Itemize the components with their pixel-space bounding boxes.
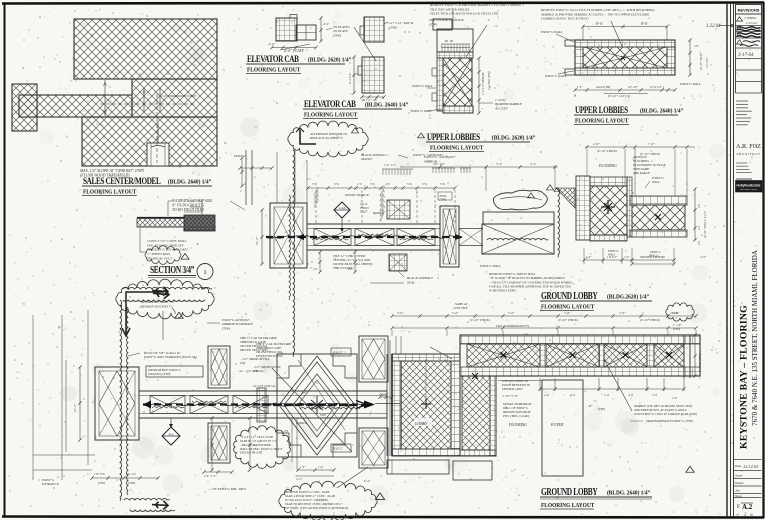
label: SECTION 3/4" with detail circle 1 <box>150 264 194 275</box>
svg-text:Scale: Scale <box>735 474 743 478</box>
svg-text:FLOORING LAYOUT: FLOORING LAYOUT <box>541 304 594 311</box>
svg-text:FLOORING LAYOUT: FLOORING LAYOUT <box>541 503 594 510</box>
elevator cab 2640 leader line <box>354 27 376 61</box>
upper lobbies 2620 - top leaders <box>452 8 454 29</box>
ground lobby 2640 left - vertical cloud line <box>120 300 122 501</box>
svg-text:EXIST’G WALL: EXIST’G WALL <box>479 264 501 268</box>
ground lobby 2640 left - heavy centerline with arrow <box>143 403 358 405</box>
svg-text:development group: development group <box>740 188 758 191</box>
upper lobbies 2640 - leader into plan <box>611 21 622 46</box>
rosette boxed labels <box>331 348 351 356</box>
upper lobbies 2620 - central diamond field <box>443 58 472 106</box>
ground lobby 2640 - LOBBY lattice field <box>401 361 451 449</box>
svg-text:FLOORING LAYOUT: FLOORING LAYOUT <box>304 112 357 119</box>
svg-text:2’0: 2’0 <box>694 44 699 48</box>
ground lobby 2620 - right square bottom tile row <box>630 230 687 237</box>
svg-text:2’-0 1/4” MOSAIC: 2’-0 1/4” MOSAIC <box>481 71 485 95</box>
svg-text:TO-DO FIELD TILES: TO-DO FIELD TILES <box>172 208 204 212</box>
rosette inner diamond double outline <box>293 374 341 437</box>
svg-text:6’6. 4’0: 6’6. 4’0 <box>126 472 136 476</box>
svg-text:W/ED EXIST’G CONT. IF GARA: W/ED EXIST’G CONT. IF GARAGE SLAB (2040) <box>634 412 697 416</box>
svg-text:SELECT: SELECT <box>333 447 344 451</box>
svg-text:5’0.: 5’0. <box>440 182 445 186</box>
elevator cab 2620 - floor grid <box>276 18 297 41</box>
svg-text:(TYP): (TYP) <box>98 481 105 485</box>
svg-text:1/4" EXPANSION JOINT: 1/4" EXPANSION JOINT <box>161 94 197 98</box>
svg-text:SECTION 3/4”: SECTION 3/4” <box>150 264 194 275</box>
ground lobby 2620 - central diamond lattice square <box>590 186 627 235</box>
ground lobby 2620 - boxed pool note <box>438 192 452 200</box>
svg-text:(9’-10” TILE): (9’-10” TILE) <box>699 54 703 70</box>
ground lobby 2640 - LOBBY center cross and centerline <box>421 399 431 409</box>
sales center plan - right column hatched <box>132 79 217 117</box>
svg-text:7’-0”: 7’-0” <box>648 142 655 146</box>
ground lobby 2640 - band tile columns <box>540 344 546 367</box>
svg-text:(BLDG. 2640) 1/4”: (BLDG. 2640) 1/4” <box>640 107 683 115</box>
svg-text:1’4”: 1’4” <box>586 255 592 259</box>
upper lobbies 2620 - left tile column <box>437 58 443 111</box>
svg-text:(TY): (TY) <box>253 369 259 373</box>
label: GROUND LOBBY (BLDG.2620) 1/4" <box>541 290 598 301</box>
svg-text:8’-0: 8’-0 <box>596 22 602 26</box>
ground lobby 2620 - rotated scribble columns <box>313 186 320 196</box>
ground lobby 2620 - X panel under sofa <box>482 224 554 254</box>
ground lobby 2620 - right square top tile row <box>630 196 687 205</box>
svg-text:EXIST’G WALL: EXIST’G WALL <box>544 74 567 78</box>
svg-text:4’-6 SL: 4’-6 SL <box>670 311 679 315</box>
upper lobbies 2640 - border tile course <box>575 40 675 47</box>
sales center plan - niche detail <box>147 143 169 166</box>
title block bottom table <box>734 459 762 461</box>
ground lobby 2620 - corridor X panels <box>314 229 351 246</box>
svg-text:ARE LARGE: ARE LARGE <box>632 171 650 175</box>
section detail - left leader and notes <box>140 228 146 252</box>
svg-text:GROUND LOBBY: GROUND LOBBY <box>541 290 598 301</box>
ground lobby 2640 - stair rects below lobby <box>387 460 449 474</box>
svg-text:5’0.: 5’0. <box>407 182 412 186</box>
upper lobbies 2640 - right dimension lines <box>689 40 691 75</box>
consultant stamp lines <box>736 178 752 180</box>
svg-text:2’0: 2’0 <box>284 429 288 433</box>
ground lobby 2640 - bottom big cloud note <box>279 481 377 521</box>
svg-text:FLOORING LAYOUT: FLOORING LAYOUT <box>247 67 300 74</box>
elevator cab 2620 dimension ticks <box>272 47 316 49</box>
rosette heavy centerline <box>262 404 366 406</box>
svg-text:5’0.: 5’0. <box>334 182 339 186</box>
svg-text:TYP TILE: TYP TILE <box>455 306 468 310</box>
section detail - cloud around note <box>145 246 181 265</box>
upper lobbies 2640 - left edge tabs <box>565 40 575 46</box>
sales center plan - corridor arm hatched <box>19 95 132 117</box>
svg-text:8’-2 3/4”: 8’-2 3/4” <box>348 72 352 84</box>
svg-text:A.2: A.2 <box>742 503 753 511</box>
revision row 1 delta and date <box>737 17 743 21</box>
svg-text:SALES CENTER/MODEL: SALES CENTER/MODEL <box>83 175 161 186</box>
svg-text:TILE AT BORDER PATT’N: TILE AT BORDER PATT’N <box>496 324 530 328</box>
ground lobby 2640 left - top revision cloud arm <box>123 287 212 289</box>
ground lobby 2640 left - column boxes above/below corridor <box>208 346 230 388</box>
svg-text:(9’-10” THICK): (9’-10” THICK) <box>470 318 490 322</box>
ground lobby 2640 - top dim row 1 <box>392 315 696 317</box>
svg-text:.96 .96: .96 .96 <box>444 39 454 43</box>
upper lobbies 2640 - plan outer rect <box>575 40 675 75</box>
svg-text:SELECT: SELECT <box>333 351 344 355</box>
svg-text:REPLACE AS SHEET’S: REPLACE AS SHEET’S <box>309 136 343 140</box>
svg-text:SELECTED) (TO ALIGN WALLS &: SELECTED) (TO ALIGN WALLS & FIELD LTS) <box>430 12 499 16</box>
svg-text:KEYSTONE BAY – FLOORING: KEYSTONE BAY – FLOORING <box>739 305 750 449</box>
svg-text:1’4”: 1’4” <box>624 255 630 259</box>
rosette right column boxes <box>359 336 388 382</box>
svg-text:(TYP): (TYP) <box>429 22 438 26</box>
revision cloud triangle marker <box>175 312 183 318</box>
label: ELEVATOR CAB (BLDG. 2620) 1/4" <box>247 53 299 64</box>
svg-text:ELEVATOR CAB: ELEVATOR CAB <box>247 53 299 64</box>
svg-text:(BLDG. 2620) 1/4”: (BLDG. 2620) 1/4” <box>492 134 535 142</box>
label: SALES CENTER/MODEL (BLDG. 2640) 1/4" <box>83 175 161 186</box>
svg-text:(TYP): (TYP) <box>389 25 398 29</box>
svg-text:TROPICAL FELT: TROPICAL FELT <box>147 256 173 260</box>
svg-text:(36): (36) <box>240 361 245 365</box>
upper lobbies 2640 - diamond lattice field <box>583 47 667 68</box>
ground lobby 2620 - vertical guides from dim row <box>315 190 317 224</box>
label: UPPER LOBBIES (BLDG. 2620) 1/4" <box>418 133 425 138</box>
svg-text:9’-4 1/2” (TYP): 9’-4 1/2” (TYP) <box>698 353 702 372</box>
svg-text:5’-0”: 5’-0” <box>508 311 515 315</box>
ground lobby 2640 left - left X box <box>95 367 139 440</box>
upper lobbies 2620 - plan top stub <box>433 19 452 30</box>
label: GROUND LOBBY (BLDG. 2640) 1/4" <box>541 486 598 497</box>
label: UPPER LOBBIES (BLDG. 2640) 1/4" <box>575 104 628 115</box>
ground lobby 2640 - band bottom tile course <box>460 367 700 376</box>
svg-text:A.R. FOZ: A.R. FOZ <box>736 143 761 150</box>
sales center expansion joint dimension lines <box>104 80 106 116</box>
svg-text:W REFINED ETRO: W REFINED ETRO <box>489 289 516 293</box>
developer logo black box <box>736 181 763 193</box>
svg-text:WALL: WALL <box>650 254 658 258</box>
svg-text:4’-0: 4’-0 <box>544 393 549 397</box>
svg-text:TILE: TILE <box>320 413 326 417</box>
svg-text:ELEVATOR CAB: ELEVATOR CAB <box>304 98 356 109</box>
svg-text:(9’-10” THICK): (9’-10” THICK) <box>597 149 617 153</box>
svg-text:ACCENT: ACCENT <box>494 106 509 110</box>
ground lobby 2620 - right end box <box>440 206 459 267</box>
svg-text:6’-4”: 6’-4” <box>364 479 371 483</box>
svg-text:EXIST’G “ANTIQUE” —: EXIST’G “ANTIQUE” — <box>412 152 448 157</box>
svg-text:1.22.04: 1.22.04 <box>706 24 721 29</box>
svg-text:FLOORING LAYOUT: FLOORING LAYOUT <box>430 145 483 152</box>
ground lobby 2640 - main band outer rect <box>460 335 700 376</box>
svg-text:5’-0”: 5’-0” <box>397 311 404 315</box>
ground lobby 2640 - top dim row 2 <box>392 327 696 329</box>
section detail - right leader bracket <box>201 201 203 216</box>
svg-text:2’-6: 2’-6 <box>672 396 677 400</box>
svg-text:7670 & 7640 N.E. 135 STREET, N: 7670 & 7640 N.E. 135 STREET, NORTH MIAMI… <box>751 250 759 426</box>
svg-text:4’-0 TILE (TYP): 4’-0 TILE (TYP) <box>488 71 491 90</box>
ground lobby 2640 - left dim ticks <box>380 396 392 398</box>
rosette center mark <box>311 396 323 414</box>
svg-text:4’-10” 5’-8”: 4’-10” 5’-8” <box>502 394 518 398</box>
ground lobby 2620 - bottom dim row <box>584 259 674 261</box>
upper lobbies 2620 - right dimension column <box>478 58 480 113</box>
ground lobby 2640 - lobby left wall lines <box>386 354 388 456</box>
ground lobby 2640 - dims below band <box>539 378 541 391</box>
ground lobby 2620 - tile sample above corridor <box>387 200 410 219</box>
svg-text:1’0: 1’0 <box>357 182 362 186</box>
section detail - hatched slab bar <box>137 217 192 219</box>
svg-text:EXIST’G WALL: EXIST’G WALL <box>679 82 701 86</box>
svg-text:MAX. 1/4" SLOPE AT "UPHOIST" (: MAX. 1/4" SLOPE AT "UPHOIST" (TYP) <box>79 169 145 173</box>
label: ELEVATOR CAB (BLDG. 2640) 1/4" <box>304 98 356 109</box>
ground lobby 2640 - leader to marble note <box>604 359 632 411</box>
svg-text:5’0.: 5’0. <box>422 182 427 186</box>
svg-text:LOBBY: LOBBY <box>414 421 428 426</box>
sales center plan - lower hatched square <box>82 117 217 166</box>
svg-text:4’-0”: 4’-0” <box>268 42 276 46</box>
ground lobby 2640 - LOBBY tile border courses <box>392 354 460 361</box>
upper lobbies 2620 - tile row <box>437 52 473 58</box>
svg-text:EXIST’G: EXIST’G <box>233 154 246 158</box>
svg-text:SEAL: SEAL <box>407 280 415 284</box>
svg-text:(SEALED) (TYP): (SEALED) (TYP) <box>148 372 170 376</box>
ground lobby 2640 left - corridor band <box>139 391 387 418</box>
svg-text:(9’-10” TILE) 4’-0 1/2”: (9’-10” TILE) 4’-0 1/2” <box>704 210 707 238</box>
svg-text:A-2: A-2 <box>168 432 174 436</box>
svg-text:5’0.: 5’0. <box>370 182 375 186</box>
svg-text:(TYP): (TYP) <box>598 407 605 411</box>
svg-text:2’0: 2’0 <box>313 267 317 271</box>
project title rotated text <box>739 305 750 449</box>
ground lobby 2640 left - guide verticals <box>291 418 293 462</box>
svg-text:MUTED SELECTED: MUTED SELECTED <box>255 354 283 358</box>
ground lobby 2620 - heavy centerline <box>266 236 462 238</box>
svg-text:24x24: 24x24 <box>379 392 387 396</box>
ground lobby 2620 - hatched wedge by sofa panel <box>556 188 575 208</box>
elevator cab 2640 - upper grid <box>364 17 384 42</box>
svg-text:4’-2”: 4’-2” <box>296 477 303 481</box>
section detail - dark stipple block <box>184 215 215 231</box>
ground lobby 2640 - scribble cloud above right <box>666 303 694 321</box>
ground lobby 2620 - left tall box with diamond <box>270 203 307 268</box>
ground lobby 2640 - marble rosette outer frame <box>277 354 357 457</box>
ground lobby 2620 - top dimension row <box>308 187 455 189</box>
ground lobby 2640 left - left dim lines <box>79 367 81 440</box>
ground lobby 2620 - sofa dim row <box>400 166 558 168</box>
ground lobby 2620 - tile sample below corridor <box>389 254 407 271</box>
ground lobby 2640 left - corridor X panels <box>150 396 185 414</box>
svg-text:FLOORING: FLOORING <box>508 423 527 427</box>
ground lobby 2640 left - boxed note <box>146 366 203 377</box>
ground lobby 2620 - lattice square bottom tile row <box>590 235 627 241</box>
ground lobby 2620 - middle tile column <box>627 177 632 237</box>
svg-text:WALL: WALL <box>608 253 616 257</box>
ground lobby 2640 left - bottom cloud arm <box>124 499 170 500</box>
svg-text:REMAIN AS EXIST’G: REMAIN AS EXIST’G <box>140 304 172 308</box>
svg-text:4’0” 4’0”: 4’0” 4’0” <box>433 162 445 166</box>
svg-text:2’0: 2’0 <box>698 204 701 208</box>
ground lobby 2620 - dim row above tile cluster <box>585 146 695 148</box>
svg-text:EXIST’G WALL: EXIST’G WALL <box>540 30 563 34</box>
svg-text:5’-0”: 5’-0” <box>452 311 459 315</box>
ground lobby 2640 - leader into band <box>430 347 452 359</box>
revision row 3 dark addendum scribble <box>737 33 761 38</box>
svg-text:Date: Date <box>735 464 742 468</box>
ground lobby 2620 - upper guides from plan top <box>276 152 278 203</box>
svg-text:–91 – Q’S CER GA—: –91 – Q’S CER GA— <box>237 369 266 373</box>
upper lobbies 2640 - bottom dimension row <box>575 89 675 91</box>
ground lobby 2620 - right vertical dim <box>694 189 696 240</box>
ground lobby 2620 - sofa platform <box>483 212 554 224</box>
svg-text:1 THING: 1 THING <box>744 16 757 20</box>
svg-text:(TYP): (TYP) <box>440 199 447 202</box>
ground lobby 2640 left - bottom dim rows <box>92 477 158 479</box>
svg-text:sh: sh <box>750 513 753 517</box>
svg-text:1/A6: 1/A6 <box>339 206 346 210</box>
sales center plan - left end cap hatched <box>12 84 37 131</box>
svg-text:5’-0”: 5’-0” <box>564 311 571 315</box>
svg-text:45°: 45° <box>588 404 593 408</box>
ground lobby 2640 - cloud triangle marker <box>375 493 384 500</box>
ground lobby 2640 left - cloud note lower <box>234 426 291 469</box>
svg-text:2’4” 2’4”: 2’4” 2’4” <box>204 474 217 478</box>
ground lobby 2620 - left dim lines <box>261 210 263 264</box>
svg-text:(BLDG. 2620) 1/4”: (BLDG. 2620) 1/4” <box>308 56 351 64</box>
svg-text:1’0” 6’6.: 1’0” 6’6. <box>94 472 105 476</box>
svg-text:POOL: POOL <box>439 195 448 198</box>
ground lobby 2620 - triangles near sofa <box>546 185 553 190</box>
svg-text:2’0: 2’0 <box>698 241 701 245</box>
svg-text:FLOORING LAYOUT: FLOORING LAYOUT <box>83 189 136 196</box>
svg-text:14’-0”: 14’-0” <box>73 404 77 412</box>
rosette left tile strip <box>257 388 266 422</box>
svg-text:4’-0: 4’-0 <box>628 393 633 397</box>
revision row 4 delta and scribble <box>737 40 743 44</box>
svg-text:REVISIONS: REVISIONS <box>738 8 760 13</box>
ground lobby 2640 - foyer room outline <box>542 380 583 476</box>
ground lobby 2640 left - dims below columns <box>211 418 213 470</box>
svg-text:–91–Q’S CER GA—: –91–Q’S CER GA— <box>251 384 278 388</box>
svg-text:4’-0 1/2”: 4’-0 1/2” <box>705 57 709 68</box>
rosette stepped corner notches <box>277 354 301 378</box>
ground lobby 2640 - right end wall <box>683 335 685 378</box>
upper lobbies 2620 - upper dim box <box>437 29 473 52</box>
svg-text:(4’-0 1/2”): (4’-0 1/2”) <box>650 85 664 89</box>
svg-text:4’-0: 4’-0 <box>323 22 329 26</box>
svg-text:4’0: 4’0 <box>385 182 390 186</box>
section detail - revision triangle <box>181 253 189 259</box>
svg-text:(BLDG. 2640) 1/4”: (BLDG. 2640) 1/4” <box>365 101 408 109</box>
svg-text:BORD’R: BORD’R <box>296 421 307 425</box>
ground lobby 2620 - sofa blob <box>493 190 547 209</box>
ground lobby 2640 - dim ticks below rosette <box>298 469 334 471</box>
svg-text:(TYP): (TYP) <box>673 327 680 331</box>
ground lobby 2620 - drop lines from dim row <box>586 149 588 177</box>
svg-text:(BLDG. 2640) 1/4”: (BLDG. 2640) 1/4” <box>607 489 650 497</box>
ground lobby 2640 - LOBBY square outer <box>392 354 460 456</box>
svg-text:MASTIC: MASTIC <box>360 157 374 161</box>
sheet border frame <box>2 3 764 4</box>
title block revisions box <box>736 5 762 15</box>
svg-text:MOSAIC BORD’R: MOSAIC BORD’R <box>344 193 369 197</box>
ground lobby 2620 - connecting stub to sofa platform <box>459 228 483 230</box>
svg-text:4’-0”: 4’-0” <box>700 255 707 259</box>
svg-text:F: F <box>737 504 740 510</box>
svg-text:4’0: 4’0 <box>698 226 701 230</box>
svg-text:UPPER LOBBIES: UPPER LOBBIES <box>575 104 628 115</box>
svg-text:(BLDG. 2640) 1/4”: (BLDG. 2640) 1/4” <box>168 178 211 186</box>
svg-text:LOBBIES ALIGN. TILE & FIELD: LOBBIES ALIGN. TILE & FIELD <box>540 17 589 21</box>
svg-text:5’-0: 5’-0 <box>496 162 502 166</box>
svg-text:(9’-10” THICK): (9’-10” THICK) <box>640 318 660 322</box>
svg-text:5’-0: 5’-0 <box>652 393 657 397</box>
ground lobby 2640 left - detail diamond A-2 <box>162 427 180 445</box>
svg-text:1: 1 <box>203 269 206 276</box>
rosette outer diamond double outline <box>279 356 355 455</box>
license lines <box>736 162 747 164</box>
upper lobbies 2640 - top dimension row <box>583 26 667 28</box>
svg-text:3-17-04: 3-17-04 <box>738 53 754 58</box>
svg-text:(TYP): (TYP) <box>333 33 342 37</box>
ground lobby 2620 - right square lattice field <box>632 205 685 230</box>
svg-text:1-17-04: 1-17-04 <box>746 21 757 25</box>
ground lobby 2640 - cloud leader to lobby <box>337 467 368 488</box>
svg-text:5’0.: 5’0. <box>312 182 317 186</box>
svg-text:1’4”: 1’4” <box>318 465 324 469</box>
svg-text:Sheet: Sheet <box>735 494 742 498</box>
svg-text:BORD’R: BORD’R <box>373 211 384 215</box>
ground lobby 2640 left - margin extension lines <box>32 315 34 480</box>
svg-text:(9’-10” THICK): (9’-10” THICK) <box>558 318 578 322</box>
svg-text:5’-0”: 5’-0” <box>619 311 626 315</box>
ground lobby 2640 - dim drop lines <box>391 330 393 336</box>
svg-text:1’4” 1’4”: 1’4” 1’4” <box>384 163 396 167</box>
upper lobbies 2620 - edge tabs <box>432 68 437 76</box>
svg-text:5’-0: 5’-0 <box>530 162 536 166</box>
ground lobby 2620 - left wall lines <box>245 150 247 205</box>
ground lobby 2640 - band top tile course <box>460 335 700 344</box>
svg-text:HollyRealEstate: HollyRealEstate <box>736 184 760 188</box>
svg-text:MUTED TR-GHT: MUTED TR-GHT <box>239 451 263 455</box>
ground lobby 2620 - revision cloud wavy line <box>293 150 295 357</box>
svg-text:DRAWER REMOVE EXIST’G. (TYP: DRAWER REMOVE EXIST’G. (TYP) <box>645 419 693 423</box>
svg-text:⇔ OF EXIST’G DBL. DR’S: ⇔ OF EXIST’G DBL. DR’S <box>208 487 246 491</box>
svg-text:2’0: 2’0 <box>348 267 352 271</box>
section detail - base lines <box>137 226 216 228</box>
svg-text:OPENING AND: OPENING AND <box>502 387 523 391</box>
ground lobby 2640 - second lattice column <box>460 376 496 456</box>
ground lobby 2640 - band lattice panels <box>467 344 540 367</box>
svg-text:12.12.03: 12.12.03 <box>743 464 759 469</box>
svg-text:FLOORING LAYOUT: FLOORING LAYOUT <box>575 118 628 125</box>
svg-text:16’-10”: 16’-10” <box>628 85 638 89</box>
svg-text:1’4”: 1’4” <box>300 465 306 469</box>
svg-text:EXIST’G WALL: EXIST’G WALL <box>411 84 433 88</box>
ground lobby 2620 - vertical dims below corridor <box>319 252 321 272</box>
svg-text:4’-0: 4’-0 <box>570 393 575 397</box>
svg-text:(TYP): (TYP) <box>128 481 135 485</box>
rosette leader diagonal <box>272 368 352 452</box>
ground lobby 2620 - wavy cloud right of sofa panel <box>558 190 559 257</box>
upper lobbies 2620 - bottom tile strip <box>443 106 473 113</box>
elevator cab 2640 dimensions <box>353 57 355 93</box>
svg-text:POS. (TOP 4 CLAD): POS. (TOP 4 CLAD) <box>502 414 529 418</box>
svg-text:ENTRANCE: ENTRANCE <box>41 482 59 486</box>
svg-text:OF SAND. (TYP. ALONG EXIST: OF SAND. (TYP. ALONG EXIST’G SIDEWALK) <box>285 506 348 510</box>
architect address lines <box>736 100 748 102</box>
svg-text:14’-0”: 14’-0” <box>255 237 259 245</box>
svg-text:TILE: TILE <box>360 210 366 214</box>
sales center/model plan - upper hatched square <box>74 19 217 79</box>
ground lobby 2620 - detail diamond symbol <box>334 202 350 218</box>
